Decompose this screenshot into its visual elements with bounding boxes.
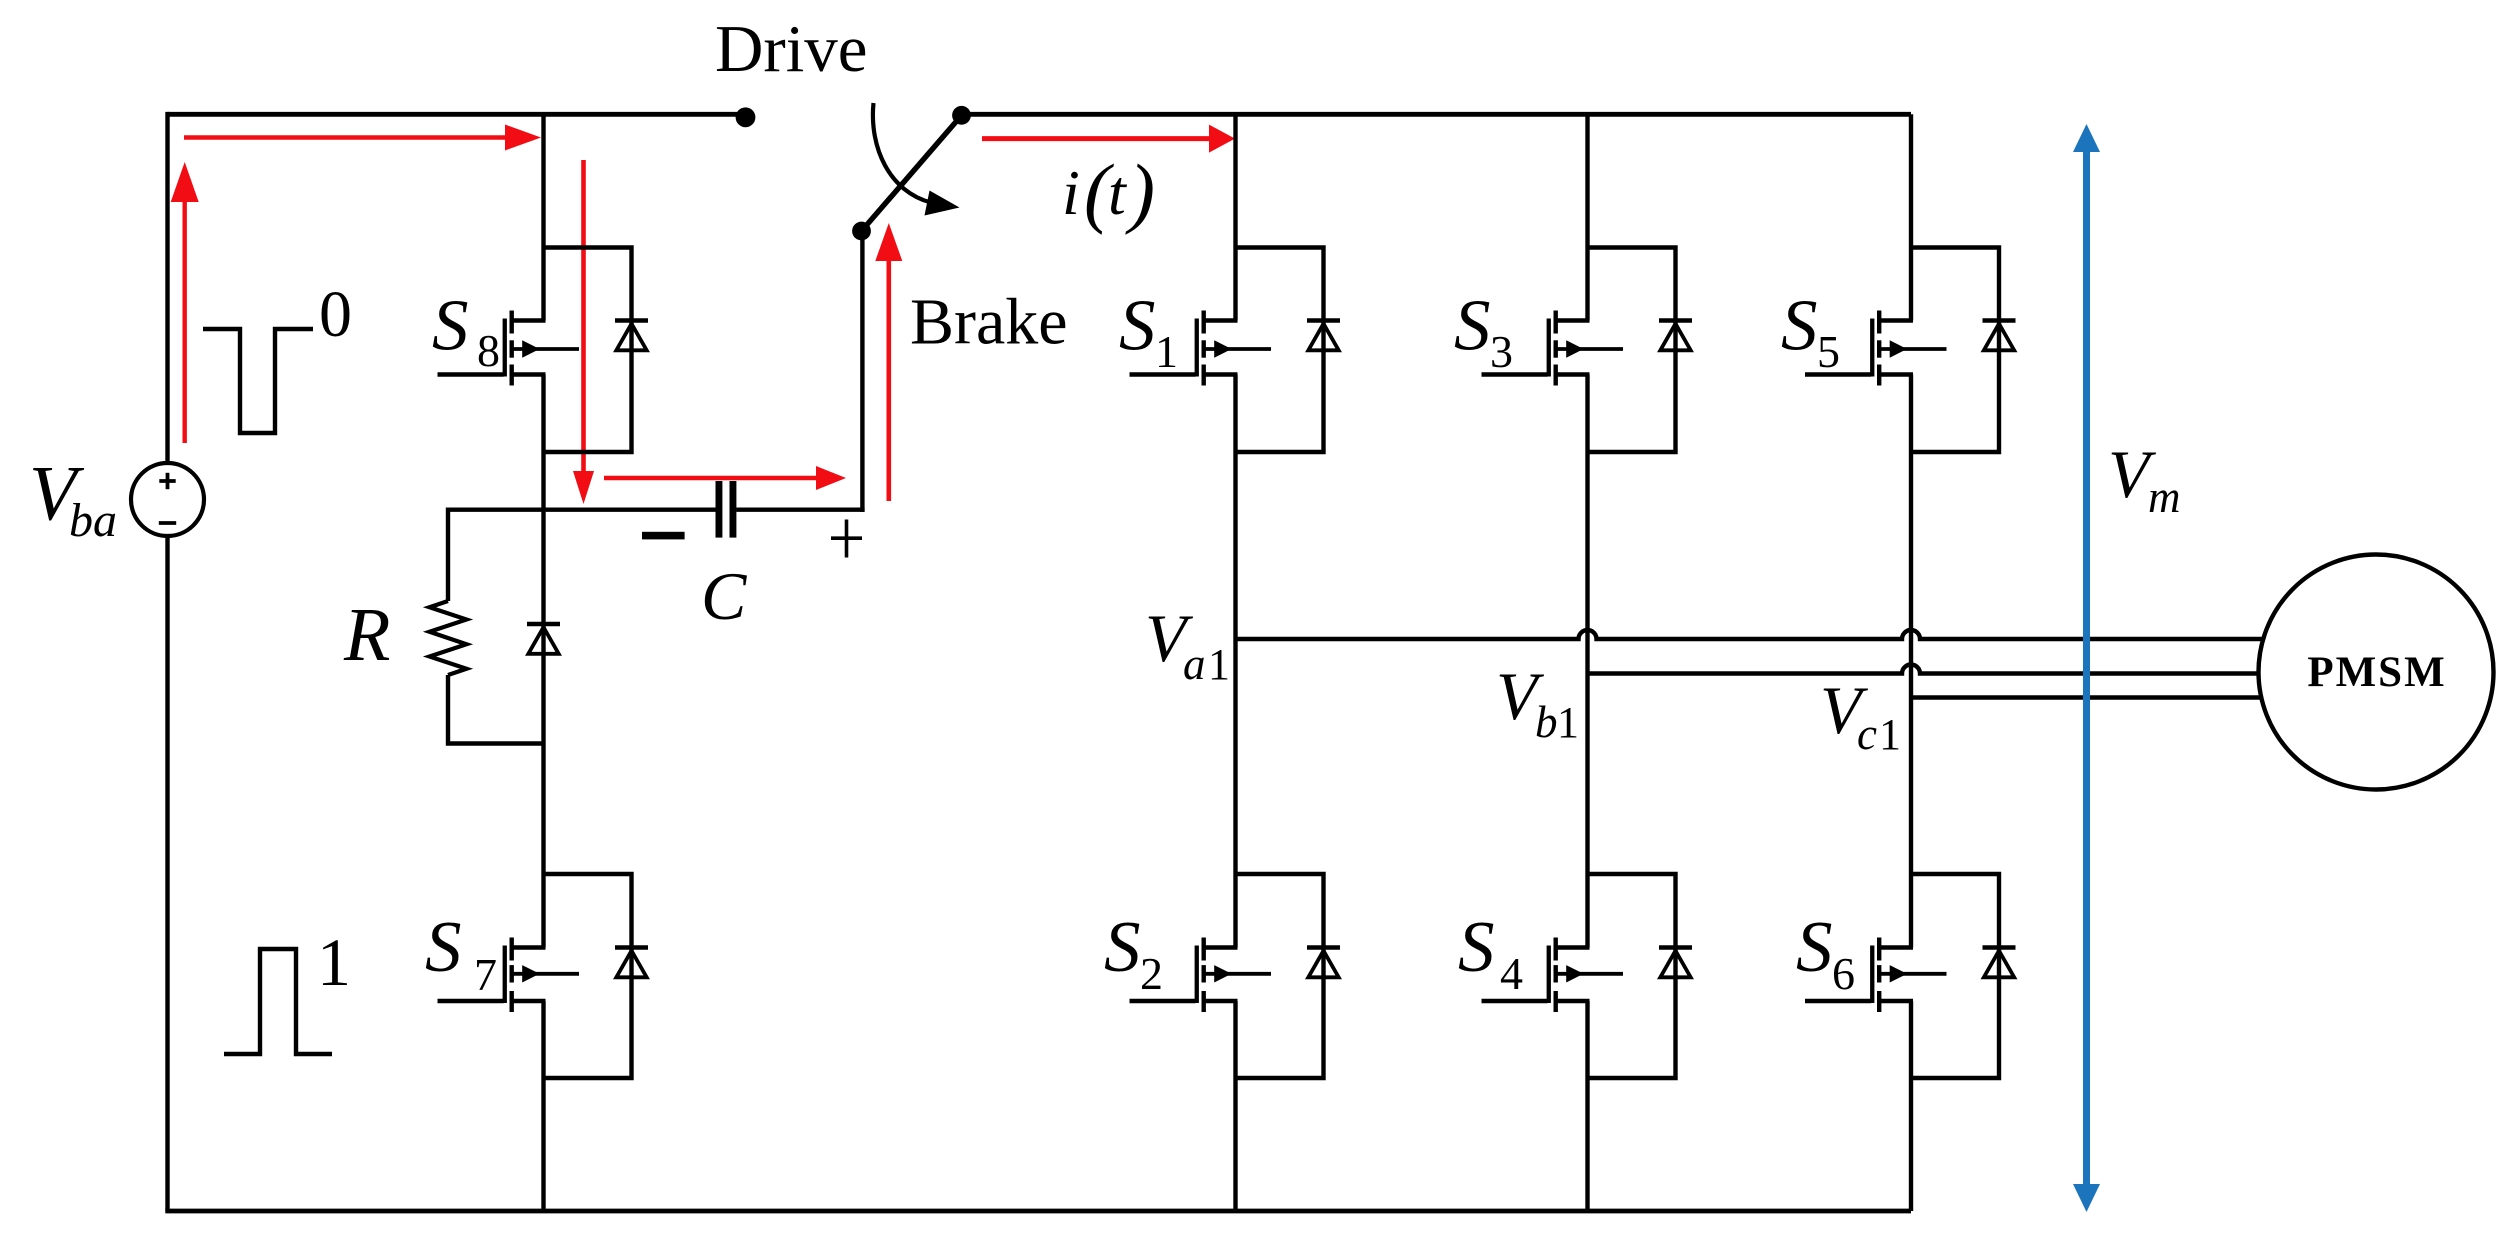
diode across S4 <box>1659 948 1692 978</box>
wire: leg 1 bus, S1 source to S2 drain (phase node) <box>1233 375 1237 948</box>
wire: phase c output Vc1 <box>1911 695 2262 699</box>
svg-text:2: 2 <box>1140 948 1163 999</box>
wire: left bus from S8 source to S7 drain <box>541 375 545 948</box>
diode across S8 <box>615 321 648 351</box>
svg-text:ba: ba <box>69 494 117 547</box>
transistor S7 (MOSFET) <box>438 938 580 1013</box>
svg-text:Drive: Drive <box>715 12 868 86</box>
transistor S6 (MOSFET) <box>1805 938 1947 1013</box>
wire: S4 freewheeling-diode branch box <box>1588 874 1676 1078</box>
wire: from C right plate to Brake contact riser <box>736 508 864 512</box>
red current arrow: down through S8 branch <box>581 160 586 473</box>
svg-text:4: 4 <box>1500 948 1523 999</box>
voltage source Vba (battery) <box>131 463 204 536</box>
diode across S3 <box>1659 321 1692 351</box>
svg-text:C: C <box>701 558 747 634</box>
svg-text:S: S <box>432 285 469 366</box>
gate drive waveform "0" (notch pulse) <box>203 329 313 433</box>
wire: R branch bottom <box>448 675 544 744</box>
capacitor C <box>716 481 737 538</box>
svg-text:c: c <box>1857 709 1877 759</box>
diode across S6 <box>1983 948 2016 978</box>
red current arrow: along top bus toward S8 <box>184 135 507 140</box>
svg-text:1: 1 <box>317 924 351 1000</box>
diode in dump branch (below S8) <box>527 624 560 654</box>
svg-text:i: i <box>1062 157 1080 228</box>
svg-text:3: 3 <box>1490 326 1513 377</box>
wire: leg 1 bus, top to S1 drain <box>1233 114 1237 320</box>
wire: left bus from S7 source to bottom bus <box>541 1001 545 1211</box>
node: Brake contact <box>852 222 871 241</box>
label - (capacitor negative plate) <box>642 532 685 540</box>
transistor S1 (MOSFET) <box>1130 311 1272 386</box>
red current arrow: up along battery branch <box>182 200 186 443</box>
label i(t) <box>1062 148 1155 235</box>
wire: leg 2 bus, top to S3 drain <box>1585 114 1589 320</box>
svg-text:S: S <box>1104 906 1141 987</box>
wire: top bus from battery + to Drive contact <box>168 112 746 117</box>
svg-text:S: S <box>1781 285 1818 366</box>
svg-text:1: 1 <box>1879 710 1901 759</box>
wire: top bus from switch to inverter legs <box>962 112 1912 117</box>
svg-text:S: S <box>1458 906 1495 987</box>
red current arrow: up toward Brake contact <box>886 259 891 501</box>
wire: node from R top across bus to capacitor C left plate <box>448 508 716 512</box>
svg-text:b: b <box>1535 697 1558 747</box>
wire: phase b output Vb1 (hops over leg 3) <box>1588 665 2260 674</box>
wire: leg 3 bus, top to S5 drain <box>1909 114 1913 320</box>
svg-text:5: 5 <box>1817 326 1840 377</box>
svg-text:S: S <box>1119 285 1156 366</box>
transistor S3 (MOSFET) <box>1482 311 1624 386</box>
svg-text:S: S <box>1796 906 1833 987</box>
svg-text:m: m <box>2148 472 2181 522</box>
svg-text:7: 7 <box>474 949 497 1000</box>
svg-text:S: S <box>425 906 462 987</box>
svg-text:1: 1 <box>1208 640 1230 689</box>
wire: leg 2 bus, S3 source to S4 drain (phase node) <box>1585 375 1589 948</box>
svg-text:): ) <box>1125 148 1155 235</box>
switch blade (Brake position) <box>862 113 965 232</box>
wire: S5 freewheeling-diode branch box <box>1911 248 1999 453</box>
wire: riser up to Brake contact <box>860 231 864 512</box>
wire: phase a output Va1 (hops over legs 2 and 3) <box>1236 630 2264 639</box>
diode across S5 <box>1983 321 2016 351</box>
wire: S1 freewheeling-diode branch box <box>1236 248 1324 453</box>
node: common contact (to inverter) <box>952 106 971 125</box>
wire: leg 1 bus, S2 source to bottom bus <box>1233 1001 1237 1211</box>
svg-text:1: 1 <box>1155 326 1178 377</box>
svg-text:6: 6 <box>1832 948 1855 999</box>
svg-text:8: 8 <box>477 325 500 376</box>
wire: S6 freewheeling-diode branch box <box>1911 874 1999 1078</box>
svg-text:PMSM: PMSM <box>2307 649 2446 696</box>
transistor S8 (MOSFET) <box>438 311 580 386</box>
svg-text:1: 1 <box>1557 698 1579 747</box>
resistor R <box>430 601 467 675</box>
wire: leg 2 bus, S4 source to bottom bus <box>1585 1001 1589 1211</box>
wire: S8 freewheeling-diode branch box <box>544 248 632 453</box>
wire: leg 3 bus, S5 source to S6 drain (phase node) <box>1909 375 1913 948</box>
gate drive waveform "1" (positive pulse) <box>224 949 332 1054</box>
wire: left vertical from battery + up to top bus <box>165 112 169 464</box>
diode across S7 <box>615 948 648 978</box>
wire: S8 bus from top bus to S8 drain <box>541 114 545 320</box>
label + (capacitor positive plate) <box>831 520 862 558</box>
svg-text:S: S <box>1454 285 1491 366</box>
wire: S7 freewheeling-diode branch box <box>544 874 632 1078</box>
svg-text:0: 0 <box>319 278 352 351</box>
wire: bottom return bus <box>165 1209 1911 1214</box>
transistor S2 (MOSFET) <box>1130 938 1272 1013</box>
diode across S2 <box>1307 948 1340 978</box>
svg-text:a: a <box>1183 639 1206 689</box>
svg-text:Brake: Brake <box>910 286 1068 359</box>
svg-text:t: t <box>1108 157 1128 228</box>
wire: left vertical from battery - down to bottom bus <box>165 536 169 1211</box>
node: Drive contact <box>736 107 756 127</box>
wire: R branch top <box>446 508 450 602</box>
switch motion curved arrow <box>873 103 960 216</box>
motor PMSM <box>2259 555 2494 790</box>
transistor S5 (MOSFET) <box>1805 311 1947 386</box>
diode across S1 <box>1307 321 1340 351</box>
svg-text:R: R <box>343 593 390 677</box>
transistor S4 (MOSFET) <box>1482 938 1624 1013</box>
blue double arrow Vm (motor voltage) <box>2073 124 2100 1212</box>
red current arrow: i(t) into inverter <box>982 136 1211 141</box>
wire: leg 3 bus, S6 source to bottom bus <box>1909 1001 1913 1211</box>
wire: S2 freewheeling-diode branch box <box>1236 874 1324 1078</box>
wire: S3 freewheeling-diode branch box <box>1588 248 1676 453</box>
red current arrow: toward capacitor C <box>604 476 818 481</box>
